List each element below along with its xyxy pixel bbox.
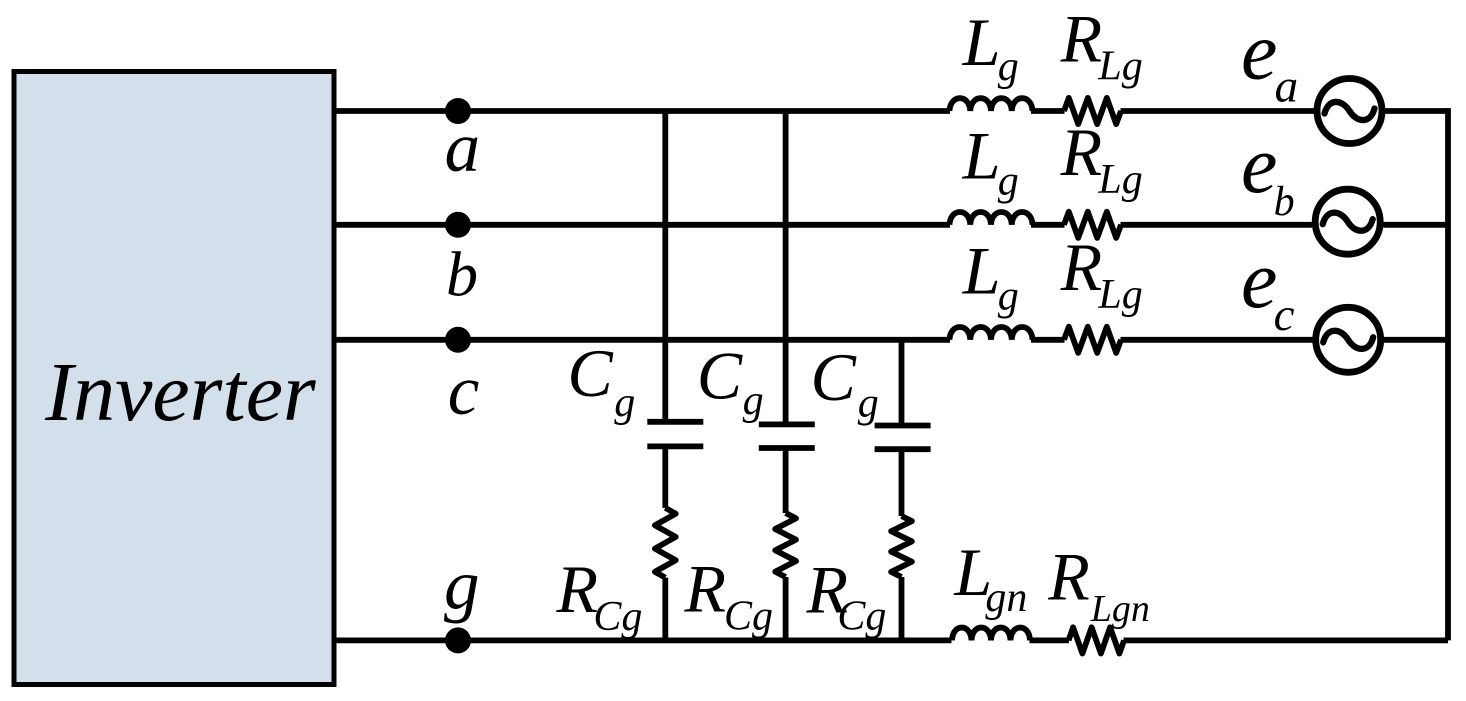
svg-text:C: C (811, 339, 857, 415)
capacitor Cg 3 bottom plate (875, 446, 931, 452)
wire phase b: resistor to source (1121, 222, 1313, 228)
svg-text:g: g (998, 158, 1019, 204)
wire phase b: source to right bus (1383, 222, 1448, 228)
wire branch 1 lower segment (662, 578, 668, 641)
source ec circle (1316, 307, 1381, 372)
node g (445, 627, 471, 653)
svg-text:e: e (1241, 6, 1277, 97)
svg-text:L: L (962, 233, 1001, 309)
svg-text:g: g (614, 380, 635, 426)
source ea sine (1325, 102, 1375, 120)
svg-text:Cg: Cg (593, 594, 642, 640)
wire ground g: resistor to right bus (1124, 638, 1449, 644)
svg-text:Cg: Cg (724, 594, 773, 640)
wire phase a: resistor to source (1121, 108, 1315, 114)
resistor RLg phase a (1064, 98, 1121, 124)
wire branch 2 upper segment (783, 111, 789, 424)
resistor RCg 1 (655, 508, 676, 578)
svg-text:Lgn: Lgn (1090, 588, 1150, 630)
wire phase c: source to right bus (1384, 337, 1448, 343)
wire phase c: inductor to resistor (1031, 337, 1065, 343)
wire phase c: resistor to source (1121, 337, 1313, 343)
wire branch 2 lower segment (783, 577, 789, 640)
svg-text:a: a (1275, 60, 1299, 112)
inductor Lg phase a (950, 98, 1033, 111)
svg-text:g: g (444, 547, 480, 625)
resistor RCg 2 (775, 513, 796, 577)
resistor RCg 3 (891, 516, 912, 577)
wire phase a: source to right bus (1385, 108, 1448, 114)
svg-text:Inverter: Inverter (44, 346, 316, 439)
svg-text:R: R (1060, 114, 1103, 190)
capacitor Cg 1 top plate (647, 419, 703, 425)
wire phase a: inverter to inductor (334, 108, 950, 114)
wire ground g: inverter to inductor Lgn (334, 638, 952, 644)
svg-text:L: L (962, 118, 1001, 194)
svg-text:b: b (446, 238, 478, 309)
svg-text:g: g (998, 273, 1019, 319)
svg-text:Lg: Lg (1097, 272, 1142, 318)
wire phase a: inductor to resistor (1031, 108, 1065, 114)
svg-text:b: b (1274, 179, 1295, 225)
inductor Lg phase c (950, 327, 1033, 340)
wire branch 3 middle segment (899, 449, 905, 516)
wire phase b: inverter to inductor (334, 222, 950, 228)
capacitor Cg 1 bottom plate (647, 443, 703, 449)
wire branch 3 upper segment (899, 340, 905, 426)
svg-text:R: R (684, 551, 727, 627)
wire phase b: inductor to resistor (1031, 222, 1065, 228)
svg-text:R: R (1060, 1, 1103, 77)
svg-text:R: R (1060, 229, 1103, 305)
wire branch 3 lower segment (899, 577, 905, 640)
svg-text:a: a (445, 109, 481, 187)
inverter block (14, 72, 334, 685)
inductor Lgn ground (952, 628, 1030, 641)
svg-text:c: c (1274, 289, 1295, 341)
svg-text:Lg: Lg (1097, 157, 1142, 203)
svg-text:e: e (1241, 234, 1277, 325)
svg-text:g: g (858, 380, 879, 426)
capacitor Cg 2 bottom plate (759, 445, 815, 451)
svg-text:C: C (697, 338, 743, 414)
wire right bus (1445, 108, 1451, 640)
wire branch 1 upper segment (662, 111, 668, 422)
svg-text:gn: gn (985, 575, 1027, 621)
resistor RLgn ground (1069, 627, 1125, 653)
svg-text:Lg: Lg (1097, 44, 1142, 90)
wire ground g: inductor to resistor (1030, 638, 1070, 644)
svg-text:C: C (567, 335, 613, 411)
node c (445, 327, 471, 353)
wire branch 1 middle segment (662, 446, 668, 508)
resistor RLg phase b (1064, 212, 1121, 238)
svg-text:c: c (448, 352, 480, 430)
node b (445, 212, 471, 238)
svg-text:Cg: Cg (837, 594, 886, 640)
svg-text:R: R (1047, 539, 1090, 615)
node a (445, 98, 471, 124)
svg-text:g: g (743, 378, 764, 424)
wire branch 2 middle segment (783, 448, 789, 513)
inductor Lg phase b (950, 212, 1033, 225)
source ec sine (1323, 331, 1373, 349)
svg-text:R: R (556, 551, 599, 627)
capacitor Cg 3 top plate (875, 423, 931, 429)
resistor RLg phase c (1064, 327, 1121, 353)
capacitor Cg 2 top plate (759, 421, 815, 427)
svg-text:e: e (1241, 119, 1277, 210)
source eb circle (1315, 189, 1380, 254)
svg-text:g: g (998, 44, 1019, 90)
svg-text:L: L (962, 4, 1001, 80)
source eb sine (1323, 213, 1373, 231)
source ea circle (1317, 79, 1382, 144)
wire phase c: inverter to inductor (334, 337, 950, 343)
